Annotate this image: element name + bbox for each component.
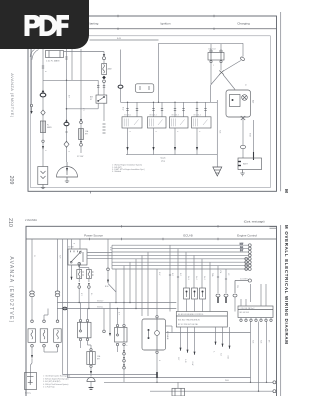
svg-text:W-B: W-B: [225, 380, 229, 382]
legend notes p1: [112, 164, 145, 174]
svg-text:M OVERALL ELECTRICAL WIRING D: M OVERALL ELECTRICAL WIRING DIAGRAM: [284, 225, 289, 345]
svg-text:4: 4: [129, 131, 131, 132]
ECM box: [176, 312, 227, 328]
bundle terminal rings: [245, 244, 251, 271]
arrowheads mid drops: [215, 342, 231, 349]
bundle wire labels: [240, 243, 244, 252]
svg-text:5: 5: [125, 345, 127, 346]
IG2 dashes labels: [103, 124, 106, 133]
svg-text:B-W: B-W: [158, 272, 160, 276]
cont label: [240, 278, 248, 280]
svg-text:L-R: L-R: [184, 360, 186, 364]
node circle: [42, 140, 44, 142]
svg-text:E2 VC PIM IGT IGF NE: E2 VC PIM IGT IGF NE: [178, 324, 199, 326]
wire horizontal y40 label run: [90, 38, 159, 40]
fuse row bottom-left: fuse EFI: [28, 320, 36, 347]
inner content border p1: [31, 36, 271, 188]
svg-text:IG1 B-Y: IG1 B-Y: [97, 300, 104, 302]
fuse lower mid: [87, 349, 95, 368]
svg-text:(Cont. next page): (Cont. next page): [244, 220, 265, 224]
switch left pin drop: [71, 265, 73, 280]
spark plug arrowheads: [126, 147, 198, 151]
svg-text:1: 1: [213, 65, 214, 67]
wire ticks above switch: [97, 86, 105, 88]
svg-text:No.3: No.3: [203, 276, 205, 280]
bus IG1 y302.5: [57, 300, 176, 302]
wire curve from badge b: [30, 50, 34, 58]
wire branch junction to alternator: [223, 75, 235, 90]
svg-text:BATT: BATT: [243, 163, 249, 166]
battery label: [243, 163, 249, 166]
connector oval on B wire: [240, 145, 245, 148]
fuse lower mid label: [97, 355, 101, 361]
svg-text:PIM: PIM: [236, 285, 238, 289]
sensor connector ticks: [169, 275, 227, 279]
arrow into connector D: [103, 54, 105, 56]
wire tick B: [65, 131, 67, 133]
svg-text:B-O: B-O: [171, 273, 173, 277]
svg-text:IE1 IH2 IG3: IE1 IH2 IG3: [240, 312, 249, 314]
vertical wire label W-B: [249, 133, 251, 137]
wire horizontal link y80: [43, 79, 98, 81]
wires below fuse row: [31, 309, 58, 373]
switch output stubs right: [87, 253, 112, 259]
long ground rail wire: [216, 100, 218, 167]
spark plug leads with arrows: [128, 128, 198, 155]
wire below FL: [42, 133, 44, 141]
wire curve from badge a: [32, 50, 39, 61]
wire relay drops: [211, 44, 221, 85]
injector drops to ECU: [170, 288, 210, 312]
relay box small p2: [115, 324, 128, 345]
connector ring D2: [103, 80, 106, 83]
wire + arrow column C: [80, 124, 82, 153]
svg-text:209: 209: [8, 176, 14, 185]
svg-text:B-Y: B-Y: [177, 358, 179, 362]
svg-text:Power Source: Power Source: [84, 234, 103, 238]
wire main feed column B+: [42, 29, 44, 92]
check connector diamonds right: [216, 294, 237, 297]
label ignition switch: [90, 96, 93, 102]
svg-text:Battery: Battery: [25, 392, 31, 395]
svg-text:IG COIL 1: IG COIL 1: [124, 115, 131, 117]
check diamond D: [102, 76, 106, 80]
ignition coil no.3: [170, 117, 189, 128]
label below column C: [77, 156, 83, 158]
svg-text:1 CB, DB J/B No.2: 1 CB, DB J/B No.2: [240, 308, 255, 310]
chain ring 3: [123, 364, 126, 369]
svg-text:W-B: W-B: [219, 130, 221, 134]
svg-text:B-W: B-W: [105, 286, 109, 288]
wire drops below fuses: [79, 279, 89, 309]
svg-text:AM: AM: [90, 96, 93, 99]
igniter relay box: [208, 53, 224, 61]
svg-text:W-B: W-B: [259, 340, 261, 344]
wire with arrow to starter: [42, 143, 44, 167]
svg-text:4: 4: [155, 131, 157, 132]
svg-text:2 (CONT): 2 (CONT): [240, 278, 248, 280]
svg-text:C/D, DLI: C/D, DLI: [208, 49, 216, 51]
EFI main relay box: [142, 319, 166, 350]
wire drop x110: [109, 303, 111, 337]
relay pin circles: [210, 50, 222, 63]
bus junction dots: [127, 102, 198, 103]
svg-text:VC: VC: [227, 273, 229, 276]
node dot B junction: [66, 108, 68, 110]
coil stub ticks: [126, 109, 206, 111]
chain ring 1: [123, 350, 126, 355]
wire EFI relay feed: [156, 269, 158, 372]
svg-text:plug: plug: [161, 160, 165, 162]
wire speck labels p1: [44, 65, 246, 152]
header separator p2: [26, 238, 277, 240]
svg-text:B-L: B-L: [90, 293, 92, 296]
chain wire 2: [123, 362, 125, 364]
connector ring C2: [80, 141, 83, 146]
noise filter (condenser dome): [57, 162, 78, 177]
injector no.1: [184, 288, 190, 299]
switch inner ticks: [71, 251, 82, 253]
bottom ground bus W-B: [104, 380, 273, 382]
svg-text:VTA: VTA: [219, 270, 222, 274]
wire group: page 2 right block: [104, 245, 276, 396]
svg-text:M: M: [283, 189, 289, 193]
wire from coils bus to ground rail: [216, 154, 217, 156]
wire alternator output: [242, 117, 244, 158]
svg-text:IG SW: IG SW: [68, 247, 74, 249]
ground below condenser: [65, 177, 69, 182]
header ticks p2: [90, 225, 219, 240]
wire diagonal feed to junction: [223, 61, 241, 72]
big ground symbol: [213, 167, 222, 176]
svg-text:L: L: [213, 352, 215, 353]
right block drop wires from bundle: [170, 245, 226, 293]
junction X below alternator: [241, 116, 245, 120]
check connector diamond B: [64, 141, 69, 147]
junction block pin stubs: [241, 318, 271, 331]
ignition coil no.2: [148, 117, 167, 128]
mid drops with arrows: [216, 327, 230, 349]
node dots on bottom bus: [156, 382, 267, 392]
svg-text:1: 1: [44, 150, 46, 151]
dark plugs below diamonds: [218, 297, 235, 312]
wire D down to switch: [103, 60, 105, 95]
svg-text:AM2: AM2: [108, 68, 113, 71]
relay pin to junction: [220, 63, 222, 71]
wire ticks badge-area: [42, 57, 68, 68]
wires right columns down: [251, 284, 267, 391]
wire bundle horizontal to right block: [112, 245, 248, 269]
sense wire with dark sleeve: [253, 120, 255, 160]
svg-text:ST: ST: [90, 99, 93, 101]
fuse AM2 column D: [102, 64, 107, 75]
fusible link box FL ALT (under badge): [46, 51, 64, 58]
connector on alternator feed: [240, 56, 245, 61]
connector ring C with arrow: [80, 119, 83, 124]
junction block J/B no.2: [238, 306, 273, 318]
connector ring above fuses: [78, 262, 81, 267]
svg-text:IG2 B-L: IG2 B-L: [97, 306, 103, 308]
value label AM2: [108, 68, 113, 71]
svg-text:2.0L FL MAIN: 2.0L FL MAIN: [46, 60, 60, 63]
svg-text:AVANZA (EM02TVE): AVANZA (EM02TVE): [10, 73, 15, 118]
wire below dome: [90, 382, 92, 388]
wire EFI box to right columns: [166, 332, 251, 334]
connector dark on EFI out: [156, 372, 158, 378]
svg-text:4 : W-B (w/ Theft Deterrent Sy: 4 : W-B (w/ Theft Deterrent System): [43, 383, 69, 386]
svg-text:G-W: G-W: [191, 362, 193, 366]
ground below starter: [41, 185, 45, 189]
node dots on buses: [62, 302, 137, 309]
coil feed stubs: [128, 102, 206, 117]
long route wire A: [63, 309, 157, 375]
injector no.2: [192, 288, 198, 299]
bottom bus 2: [150, 390, 273, 392]
chain tail to bus: [123, 369, 125, 382]
cont circle C2: [235, 279, 251, 293]
svg-text:B-W: B-W: [117, 38, 121, 40]
wire badge-area verticals: [67, 49, 73, 123]
column B distributor branch: [66, 126, 68, 162]
junction block pin rings: [240, 319, 272, 321]
bus terminal ring 1: [273, 381, 276, 384]
wire column x108 with arrow: [107, 239, 110, 283]
svg-text:IG COIL 2: IG COIL 2: [150, 115, 157, 117]
svg-text:E01 E02 THA VTA STA W: E01 E02 THA VTA STA W: [178, 319, 200, 322]
svg-text:EFI: EFI: [97, 359, 100, 361]
svg-text:G-B: G-B: [227, 356, 229, 360]
wires into small relay: [118, 303, 125, 353]
connector barrel B: [64, 119, 69, 125]
svg-text:ALT: ALT: [252, 100, 255, 104]
connector pair on x32: [30, 291, 35, 297]
wire battery feed column p2: [30, 373, 32, 383]
PDF badge overlay: [0, 0, 92, 52]
wire frame-left service wires: [31, 29, 33, 104]
page frame p2: [26, 225, 277, 396]
wire diagonal x108 to riser: [108, 284, 116, 293]
header separator p1: [28, 28, 277, 30]
relay box left-mid: [78, 319, 92, 340]
battery box p2: [25, 373, 37, 390]
svg-text:W-B: W-B: [251, 340, 253, 344]
bus ACC y308.5: [57, 306, 176, 308]
wire feeds into switch: [72, 239, 81, 265]
svg-text:4: 4: [176, 131, 178, 132]
starter motor ST: [38, 167, 48, 185]
ignition switch label p2: [68, 247, 74, 249]
injector no.3: [200, 288, 206, 299]
wire into junction box: [177, 382, 179, 388]
alternator assembly box: [226, 90, 251, 117]
svg-text:Spark: Spark: [160, 158, 165, 160]
relay label: [208, 49, 216, 51]
EFI relay label: [166, 331, 169, 340]
svg-text:W: W: [244, 84, 246, 86]
frame corner ticks p2: [270, 227, 277, 229]
svg-text:E6 E5 E3 ENGINE CONTROL: E6 E5 E3 ENGINE CONTROL: [178, 314, 204, 316]
arrow on battery drop: [31, 355, 33, 359]
check connector dome mid: [87, 377, 95, 381]
svg-text:3: 3: [68, 151, 70, 152]
header ticks p1: [91, 15, 215, 194]
svg-text:IG COIL 4: IG COIL 4: [194, 115, 201, 117]
svg-text:B-O: B-O: [179, 273, 181, 277]
svg-text:B-Y: B-Y: [82, 108, 84, 112]
arrowheads ECU out: [180, 348, 196, 355]
svg-text:3 : B-O (M/T), B-W (A/T): 3 : B-O (M/T), B-W (A/T): [43, 380, 61, 383]
coil number labels: [124, 115, 201, 117]
shield loop box: [135, 84, 154, 93]
svg-text:IG COIL 3: IG COIL 3: [172, 115, 179, 117]
ground below battery box: [240, 170, 244, 176]
svg-text:B-R: B-R: [68, 95, 70, 99]
node dot: [66, 80, 67, 81]
legend notes p2: [43, 375, 71, 389]
svg-text:B: B: [44, 71, 46, 73]
svg-text:EFI: EFI: [85, 134, 88, 136]
connector pair on x57: [55, 291, 60, 297]
wire column x32: [31, 239, 33, 320]
svg-text:Ignition: Ignition: [161, 21, 171, 25]
ground mid-bottom: [89, 388, 94, 390]
ignition switch box p2: [68, 249, 87, 265]
wire bus to coils y102: [121, 88, 218, 102]
junction block label: [240, 308, 255, 314]
barrel on bus: [63, 307, 67, 310]
page frame p1: [28, 16, 277, 191]
barrel connector coil feed: [118, 85, 123, 88]
svg-text:THA: THA: [211, 273, 214, 277]
value label fuse C: [85, 130, 89, 136]
svg-text:ECU-B: ECU-B: [183, 234, 192, 238]
right margin scan edge line: [280, 225, 282, 396]
long route wire B: [67, 239, 250, 378]
svg-text:4 : Shielded: 4 : Shielded: [112, 171, 121, 173]
fuse row bottom-left: fuse HORN: [40, 320, 48, 347]
fuse AM1 p2: [77, 270, 82, 279]
fuse row bottom-left: fuse DOME: [54, 320, 62, 347]
labels mid drops: [213, 352, 229, 360]
rings below fuses: [78, 283, 90, 288]
PDF badge letters: [25, 15, 70, 36]
ignition coil no.1: [122, 117, 142, 128]
wire EFI to bottom bus: [156, 378, 158, 382]
svg-text:BR: BR: [267, 340, 269, 343]
svg-text:MAIN: MAIN: [47, 126, 52, 129]
svg-text:Engine Control: Engine Control: [237, 234, 257, 238]
svg-text:W-R: W-R: [59, 255, 61, 259]
connector ring D: [103, 57, 106, 60]
svg-text:No.1: No.1: [187, 276, 189, 280]
wire feed above barrel: [120, 50, 122, 86]
bus terminal ring 2: [273, 390, 276, 393]
svg-text:B-W: B-W: [109, 247, 111, 251]
wires relay left-mid: [81, 303, 92, 349]
fuse AM2 p2: [87, 270, 92, 279]
ground stub left: [30, 104, 32, 114]
connector A (barrel): [40, 90, 46, 97]
bundle left risers: [112, 245, 148, 316]
svg-text:1 : CB, DB (w/ Daytime Running: 1 : CB, DB (w/ Daytime Running Light): [43, 375, 71, 378]
value label FL: [46, 60, 60, 63]
ECM label rows: [178, 314, 204, 326]
ignition switch SW box: [96, 95, 107, 103]
svg-text:4: 4: [198, 131, 200, 132]
alternator label: [252, 100, 255, 104]
relay output to coil bus: [210, 85, 212, 102]
battery label p2: [25, 392, 31, 395]
svg-text:B-W: B-W: [122, 107, 124, 111]
arrowhead: [42, 146, 44, 150]
junction X node: [219, 71, 223, 75]
wire drop x104: [103, 309, 105, 331]
chain ring 2: [123, 357, 126, 362]
junction rings EFI relay: [156, 316, 158, 354]
white diamond connector on FL column: [41, 110, 45, 115]
wire column D x103: [64, 52, 105, 56]
svg-text:B: B: [158, 360, 160, 362]
wire column x62: [62, 239, 64, 309]
svg-text:2 AVANZA: 2 AVANZA: [25, 218, 37, 222]
wire second switch feed: [97, 80, 99, 95]
wire column x57: [57, 239, 59, 320]
right margin scan edge line p1: [280, 12, 282, 191]
wire ignition main loop: [159, 43, 244, 88]
svg-text:No.2: No.2: [195, 276, 197, 280]
wire column C x81: [80, 49, 82, 121]
ECU out drops with arrows: [181, 327, 195, 355]
ring x104: [103, 330, 106, 333]
ignition coil no.4: [192, 117, 212, 128]
wire branch junction to bus drop: [211, 74, 220, 85]
chain wire: [123, 355, 125, 357]
value label FL main: [47, 125, 52, 130]
wire below fuse lower mid: [90, 368, 92, 377]
wire split to fuses: [79, 265, 89, 270]
wire EFI box upper link: [166, 326, 173, 333]
svg-text:LG: LG: [220, 354, 222, 357]
wire to fusible link: [42, 96, 44, 121]
svg-text:W-B: W-B: [249, 133, 251, 137]
svg-text:210: 210: [7, 218, 13, 227]
svg-text:ST SW: ST SW: [77, 156, 83, 158]
svg-text:5 : to Fuel Pump: 5 : to Fuel Pump: [43, 386, 55, 389]
spark plug label: [160, 158, 165, 163]
spark plug bus: [126, 154, 216, 156]
junction box bottom: [172, 388, 185, 396]
svg-text:AVANZA (EM02TVE): AVANZA (EM02TVE): [8, 256, 14, 323]
svg-text:B-Y: B-Y: [80, 293, 82, 297]
svg-text:2 : B-R (w/o Daytime Running L: 2 : B-R (w/o Daytime Running Light): [43, 377, 69, 380]
fusible link FL MAIN: [40, 121, 45, 133]
label under x108: [105, 286, 109, 288]
wire from IG switch down and left: [67, 103, 105, 121]
svg-text:W: W: [33, 255, 35, 257]
svg-text:Charging: Charging: [237, 21, 250, 25]
junction block feeds: [241, 284, 266, 306]
fuse tags: [82, 272, 93, 275]
voltage regulator / battery box: [238, 158, 262, 170]
labels under ECU out: [177, 358, 193, 366]
svg-text:15A: 15A: [97, 355, 101, 358]
svg-text:B: B: [73, 243, 75, 245]
fuse IGN column C: [79, 129, 84, 140]
wire speck labels p2: [33, 243, 269, 362]
svg-text:B-W: B-W: [240, 243, 244, 245]
